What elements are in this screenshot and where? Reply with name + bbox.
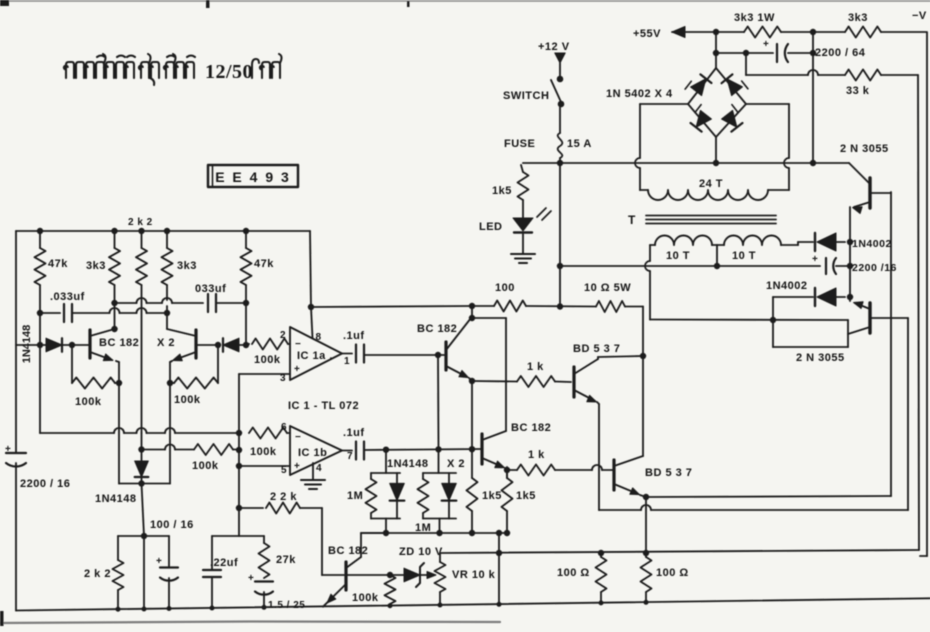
- capacitor 033uf: [207, 294, 209, 312]
- svg-text:−: −: [295, 432, 301, 443]
- capacitor 2200/64: [776, 44, 778, 62]
- wire pin4 stub: [312, 463, 314, 479]
- scan border top line: [0, 0, 930, 2]
- diode 1N4148 middle vertical: [139, 447, 144, 452]
- wire y320 to collector corner: [847, 320, 849, 334]
- resistor 3k3 1W: [744, 27, 781, 38]
- wire 2200/64 line: [716, 52, 773, 54]
- svg-text:1N4148: 1N4148: [21, 325, 33, 364]
- wire to 3k3: [781, 31, 845, 33]
- wire pin3 row: [239, 373, 290, 375]
- wire top rail +V oscillator: [16, 230, 310, 232]
- capacitor 2200/16 left edge: [6, 452, 26, 454]
- svg-text:1k5: 1k5: [516, 490, 536, 502]
- svg-text:2200 / 16: 2200 / 16: [20, 478, 70, 490]
- capacitor 1.5/25: [255, 580, 273, 582]
- svg-text:3k3: 3k3: [848, 12, 868, 24]
- svg-text:100k: 100k: [174, 394, 201, 406]
- wire fuse to rail: [559, 158, 561, 163]
- resistor 100ohm left: [600, 553, 602, 557]
- diode 1N4002 bottom: [814, 288, 816, 306]
- svg-text:FUSE: FUSE: [504, 138, 535, 150]
- wire supply line left: [311, 306, 472, 307]
- transistor BC182 mid: [480, 434, 483, 464]
- wire sense line y553: [440, 550, 919, 553]
- svg-text:100k: 100k: [254, 354, 281, 366]
- diode 1N4148 right: [223, 338, 239, 352]
- svg-text:1N4148: 1N4148: [387, 458, 429, 470]
- resistor 3k3 top right: [845, 27, 881, 38]
- wire 33k feed: [745, 53, 747, 75]
- svg-text:SWITCH: SWITCH: [503, 90, 549, 102]
- wire emitter-R column: [170, 361, 172, 362]
- wire mid segment y536: [118, 535, 169, 537]
- svg-text:IC 1b: IC 1b: [298, 447, 327, 459]
- resistor 100ohm right: [641, 557, 652, 592]
- wire BD537-top emitter drop: [597, 402, 599, 404]
- svg-text:1k5: 1k5: [482, 490, 502, 502]
- svg-text:+: +: [248, 573, 254, 584]
- wire y496 feedback line: [646, 496, 891, 497]
- svg-text:1N4148: 1N4148: [95, 493, 137, 505]
- wire switch to fuse: [559, 104, 561, 133]
- resistor 1k5 left: [471, 449, 473, 478]
- svg-text:5: 5: [281, 465, 287, 476]
- svg-text:X 2: X 2: [447, 458, 465, 470]
- wire x919 riser to 33k: [918, 75, 919, 550]
- svg-text:1: 1: [344, 356, 350, 367]
- resistor 47k right: [245, 231, 247, 248]
- svg-text:BD 5 3 7: BD 5 3 7: [573, 343, 620, 355]
- resistor 10ohm 5W: [596, 301, 625, 312]
- wire bridge bottom to rail: [715, 137, 717, 163]
- diode 1N4002 top: [814, 233, 816, 251]
- svg-text:X 2: X 2: [157, 337, 175, 349]
- svg-text:BC 182: BC 182: [328, 545, 368, 557]
- EE493 label box: [208, 165, 298, 187]
- Thai title word 2: [139, 54, 159, 85]
- svg-text:+: +: [294, 461, 300, 472]
- wire emitter bus: [40, 432, 114, 434]
- svg-text:.22uf: .22uf: [210, 557, 238, 569]
- capacitor .1uf bottom: [355, 442, 357, 460]
- diode 1N4148 box1: [390, 483, 405, 500]
- diode 1N4148 box2: [442, 483, 457, 500]
- svg-text:+: +: [294, 364, 300, 375]
- resistor 47k left: [39, 231, 41, 248]
- resistor 100k right: [217, 345, 219, 383]
- transistor BD537 bottom: [612, 460, 615, 490]
- svg-text:T: T: [628, 213, 636, 227]
- wire emitter node: [469, 378, 472, 381]
- resistor 1k5 right: [506, 467, 508, 478]
- svg-text:100 Ω: 100 Ω: [656, 567, 689, 579]
- resistor 100k to pin2: [246, 344, 249, 345]
- resistor 100: [472, 305, 494, 307]
- diode bridge bottom-right: [718, 105, 744, 132]
- svg-text:3k3 1W: 3k3 1W: [734, 12, 775, 24]
- svg-text:IC 1a .: IC 1a .: [297, 350, 333, 362]
- transformer secondary left 10T: [650, 244, 655, 246]
- wire collector column x506: [505, 318, 507, 431]
- svg-text:+: +: [812, 254, 818, 265]
- wire x850 column: [849, 207, 851, 301]
- svg-text:E E 4 9 3: E E 4 9 3: [215, 169, 291, 185]
- svg-text:47k: 47k: [254, 258, 274, 270]
- svg-text:1k5: 1k5: [492, 185, 512, 197]
- switch SPST: [557, 76, 563, 82]
- svg-text:12/50: 12/50: [205, 61, 253, 83]
- wire 2N3055-bot base: [870, 317, 908, 319]
- svg-text:3: 3: [280, 373, 286, 384]
- wire x438 drop to lower row: [437, 355, 440, 449]
- transistor BC182 left (Q-L): [88, 330, 91, 358]
- svg-text:ZD 10 V: ZD 10 V: [399, 546, 443, 558]
- wire zener to VR arrow: [421, 574, 429, 576]
- diode bridge top-right: [722, 72, 748, 99]
- svg-text:100k: 100k: [192, 460, 219, 472]
- svg-text:10 T: 10 T: [666, 250, 690, 262]
- svg-text:+: +: [763, 39, 769, 50]
- svg-text:1M: 1M: [347, 490, 363, 502]
- wire cap line A right: [216, 302, 246, 304]
- svg-text:1N4002: 1N4002: [852, 238, 892, 250]
- svg-text:BC 182: BC 182: [511, 422, 551, 434]
- wire center tap: [716, 245, 718, 266]
- wire to -V corner: [881, 31, 926, 33]
- svg-text:2 2 k: 2 2 k: [270, 491, 297, 503]
- wire collector to supply line: [471, 306, 473, 318]
- fuse symbol: [558, 133, 563, 158]
- svg-text:VR 10 k: VR 10 k: [452, 569, 496, 581]
- LED light marks: [537, 208, 546, 217]
- wire 33k to right riser: [881, 74, 918, 76]
- op-amp IC1b: [290, 426, 342, 475]
- svg-text:−V: −V: [912, 10, 927, 22]
- resistor 100k left: [71, 345, 73, 383]
- wire cap line B right with hops: [72, 312, 110, 314]
- svg-text:10 Ω 5W: 10 Ω 5W: [584, 282, 631, 294]
- wire x813 column: [812, 32, 814, 163]
- svg-text:1N4002: 1N4002: [766, 280, 808, 292]
- svg-text:100 / 16: 100 / 16: [150, 519, 194, 531]
- wire diode right to 47kR: [239, 344, 246, 346]
- Thai title word 3: [164, 54, 195, 78]
- transformer core: [646, 215, 776, 217]
- svg-text:3k3: 3k3: [177, 260, 197, 272]
- wire secondary right to diode: [797, 242, 799, 245]
- wire y320 branch: [650, 319, 848, 322]
- capacitor .22uf: [211, 536, 213, 570]
- svg-text:100k: 100k: [250, 446, 277, 458]
- wire y510 feedback line: [599, 509, 641, 511]
- svg-text:.1uf: .1uf: [343, 330, 365, 342]
- wire LED to ground: [522, 234, 524, 253]
- scan border bottom line: [0, 622, 500, 624]
- wire diode column to rail: [143, 536, 145, 609]
- resistor 3k3 right: [166, 231, 168, 248]
- svg-text:+12 V: +12 V: [538, 41, 570, 53]
- wire center-tap feed y266: [560, 265, 717, 267]
- capacitor 2200/16: [825, 258, 827, 274]
- wire zener row: [346, 574, 404, 576]
- wire BC182 collector to y533: [360, 533, 362, 557]
- svg-text:100k: 100k: [75, 396, 102, 408]
- wire bridge AC right: [746, 103, 789, 105]
- wire IC1b output: [342, 450, 352, 452]
- wire y533 node line: [361, 532, 508, 534]
- svg-text:2 k 2: 2 k 2: [128, 217, 153, 228]
- wire base line left: [16, 344, 46, 346]
- svg-text:+: +: [156, 556, 162, 567]
- wire cap line B left: [40, 312, 60, 314]
- wire fuse column down: [559, 163, 561, 307]
- resistor 1k5 lamp: [521, 165, 523, 172]
- wire BD537-bot emitter to x646: [640, 495, 646, 497]
- resistor 100k bottom: [385, 575, 396, 604]
- resistor 27k: [263, 536, 265, 543]
- wire x239 bottom tee: [212, 535, 264, 537]
- svg-text:24 T: 24 T: [699, 178, 723, 190]
- resistor 1k top row: [472, 380, 517, 383]
- svg-text:LED: LED: [479, 221, 503, 233]
- wire 2N3055-top base: [870, 192, 891, 194]
- wire bridge AC left: [640, 103, 688, 105]
- wire oscillator right drop: [310, 231, 311, 307]
- wire pin5 row: [239, 465, 290, 467]
- transistor BD537 top: [572, 367, 575, 397]
- wire 2N3055-bot collector loop: [847, 334, 849, 347]
- wire emitter-L column: [116, 361, 119, 362]
- svg-text:2 N 3055: 2 N 3055: [840, 143, 889, 155]
- svg-text:1 k: 1 k: [528, 449, 545, 461]
- wire cap line A left with hops: [115, 302, 137, 304]
- wire +12V rail y163: [523, 162, 813, 164]
- wire emitter column x507: [505, 468, 507, 470]
- op-amp IC1a: [290, 327, 342, 380]
- transformer primary 24T: [640, 189, 648, 191]
- resistor 2k2 bottom: [117, 536, 119, 560]
- transistor BC182 right (Q-R): [194, 330, 197, 358]
- svg-text:1N 5402 X 4: 1N 5402 X 4: [606, 88, 673, 100]
- transistor 2N3055 top: [868, 178, 871, 208]
- LED: [522, 200, 524, 218]
- wire VR top corner: [439, 552, 441, 554]
- Thai title word 1: [64, 54, 135, 78]
- capacitor .033uf: [63, 304, 65, 322]
- wire secondary left drop: [649, 245, 651, 261]
- wire BD537-bot collector column: [642, 307, 644, 457]
- svg-text:47k: 47k: [48, 258, 68, 270]
- svg-text:033uf: 033uf: [195, 283, 226, 295]
- arrow +12V down: [555, 53, 565, 63]
- svg-text:+55V: +55V: [633, 28, 661, 40]
- svg-text:BC 182: BC 182: [99, 337, 139, 349]
- diode zener ZD10V: [404, 568, 420, 582]
- resistor 100k to pin6: [249, 428, 287, 439]
- svg-text:100 Ω: 100 Ω: [557, 567, 590, 579]
- resistor 100k mid row: [142, 449, 166, 451]
- transformer secondary right 10T: [717, 244, 724, 246]
- potentiometer VR10k: [439, 553, 441, 562]
- svg-text:1.5 / 25: 1.5 / 25: [268, 600, 305, 611]
- svg-text:+: +: [5, 444, 11, 455]
- wire bottom diode line: [773, 296, 813, 298]
- wire x773 column: [772, 297, 774, 347]
- svg-text:IC 1 - TL 072: IC 1 - TL 072: [288, 400, 359, 412]
- network box1 1M + diode: [385, 449, 387, 473]
- capacitor 100/16: [168, 536, 170, 567]
- wire cap to BC182 base: [364, 354, 444, 356]
- wire left edge vertical: [15, 231, 17, 453]
- resistor 2k2 middle: [141, 231, 143, 248]
- wire y318 branch: [472, 317, 506, 319]
- Thai title word volt: [252, 54, 282, 78]
- wire +55V line: [672, 31, 744, 33]
- wire feedback column x239: [238, 374, 240, 536]
- svg-text:2200 /16: 2200 /16: [852, 262, 897, 274]
- resistor 33k: [845, 70, 881, 81]
- diode 1N4148 left: [46, 338, 62, 352]
- svg-text:.1uf: .1uf: [343, 427, 365, 439]
- wire diode to Q-left base: [63, 344, 90, 346]
- network box2 1M + diode: [438, 449, 440, 473]
- wire 3k3R to collector node: [166, 306, 168, 329]
- wire base line right: [196, 344, 219, 346]
- arrow +55V: [672, 27, 685, 38]
- transistor 2N3055 bottom: [868, 303, 871, 333]
- svg-text:BC 182: BC 182: [417, 323, 457, 335]
- svg-text:BD 5 3 7: BD 5 3 7: [645, 467, 692, 479]
- svg-text:15 A: 15 A: [567, 138, 592, 150]
- diode bridge bottom-left: [688, 105, 714, 132]
- wire 2200/16 line: [717, 265, 820, 267]
- transistor BC182 top-driver: [444, 342, 447, 370]
- bridge rectifier diamond: [688, 68, 716, 104]
- svg-text:1 k: 1 k: [527, 361, 544, 373]
- wire x891 riser: [890, 192, 892, 496]
- svg-text:2: 2: [280, 330, 286, 341]
- wire x499 drop: [498, 533, 500, 604]
- svg-text:2 k 2: 2 k 2: [84, 568, 111, 580]
- svg-text:2200 / 64: 2200 / 64: [815, 47, 866, 59]
- wire -V right edge drop: [926, 32, 928, 556]
- svg-text:10 T: 10 T: [732, 250, 756, 262]
- svg-text:33 k: 33 k: [846, 85, 870, 97]
- wire cap to base row: [364, 449, 482, 450]
- wire emitter column: [471, 381, 473, 449]
- wire bridge top column: [715, 32, 717, 68]
- wire IC1a output: [342, 353, 352, 355]
- resistor 1k bottom row: [507, 469, 517, 471]
- svg-text:8: 8: [316, 332, 322, 343]
- capacitor .1uf top: [355, 345, 357, 363]
- junction dot fuse rail: [522, 162, 524, 164]
- svg-text:27k: 27k: [276, 554, 296, 566]
- svg-text:100k: 100k: [352, 592, 379, 604]
- ground IC1b pin4: [301, 479, 325, 481]
- svg-text:7: 7: [347, 451, 353, 462]
- svg-text:4: 4: [316, 463, 322, 474]
- svg-text:6: 6: [281, 422, 287, 433]
- resistor 3k3 left: [114, 231, 116, 248]
- wire x908 riser: [907, 318, 909, 510]
- svg-text:2 N 3055: 2 N 3055: [796, 352, 845, 364]
- svg-text:100: 100: [495, 282, 515, 294]
- ground LED: [511, 253, 535, 255]
- wire emitter crossbar: [119, 483, 170, 485]
- resistor 22k: [239, 507, 263, 509]
- wire bottom ground rail: [16, 598, 930, 610]
- svg-text:.033uf: .033uf: [50, 291, 85, 303]
- wire 22k drop to BC182 base: [321, 508, 323, 575]
- svg-text:3k3: 3k3: [86, 260, 106, 272]
- diode bridge top-left: [685, 73, 711, 100]
- svg-text:−: −: [295, 339, 301, 350]
- transistor BC182 bottom-left: [344, 562, 347, 590]
